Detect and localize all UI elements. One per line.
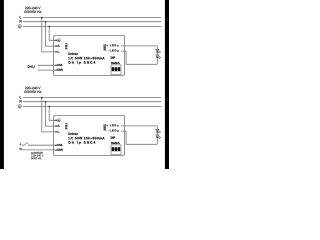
label DA lp SNC4 D1 <box>69 61 96 64</box>
wire LED chain vertical D2 <box>156 126 158 144</box>
terminal square dal D1 <box>55 65 56 66</box>
driver box D2 <box>54 116 125 156</box>
wire L line D2 <box>23 97 161 99</box>
junction dot N D2 <box>45 101 47 103</box>
terminal square -LED D1 <box>117 50 118 51</box>
label SEC D2 <box>104 124 106 130</box>
wire N line D2 <box>23 101 161 103</box>
terminal square pe D1 <box>55 40 56 41</box>
wire DALI DA/L <box>38 64 57 66</box>
node N label D2 <box>20 100 22 102</box>
label DALI <box>28 65 35 67</box>
label LC 50W 150-500mA D2 <box>69 137 105 139</box>
terminal +LED label D1 <box>107 44 117 46</box>
terminal DA/N label D2 <box>57 149 62 151</box>
terminal L label D2 <box>58 131 59 133</box>
label Switch D2 <box>111 142 119 144</box>
terminal square dan D1 <box>55 69 56 70</box>
terminal DA/L label D1 <box>57 64 62 66</box>
wire DALI DA/N <box>38 69 57 71</box>
label switch 50/60 Hz <box>31 157 41 159</box>
wire L drop D1 <box>42 18 56 52</box>
letterbox bar right <box>165 0 169 169</box>
junction dot PE D2 <box>48 106 50 108</box>
wire PE line D1 <box>23 25 161 27</box>
terminal L label D1 <box>58 51 59 53</box>
wire +LED to chain D2 <box>121 125 157 127</box>
label PRI D1 <box>65 44 67 50</box>
label Switch D1 <box>111 62 119 64</box>
switch node N label <box>20 148 22 150</box>
terminal square dan D2 <box>55 149 56 150</box>
wire -LED return D1 <box>121 51 157 64</box>
LED D2 D1 <box>156 55 161 59</box>
DIP switch graphic D1 <box>111 65 121 75</box>
wire -LED return D2 <box>121 131 157 144</box>
label DIP D2 <box>111 137 115 139</box>
label 0/50/60 Hz mains D1 <box>24 10 41 12</box>
terminal square dal D2 <box>55 145 56 146</box>
junction dot L D1 <box>41 17 43 19</box>
label Driver D1 <box>69 53 78 55</box>
label PRI D2 <box>65 124 67 130</box>
ground PE symbol mains D2 <box>18 104 22 108</box>
wire L line D1 <box>23 17 161 19</box>
wire PE drop D1 <box>49 26 56 40</box>
label switchDIM <box>31 152 43 154</box>
terminal DA/L label D2 <box>57 144 62 146</box>
wire N line D1 <box>23 21 161 23</box>
terminal square +LED D2 <box>117 125 118 126</box>
label LC 50W 150-500mA D1 <box>69 57 105 59</box>
wire +LED to chain D1 <box>121 45 157 47</box>
terminal square +LED D1 <box>117 45 118 46</box>
switch node L label <box>20 143 21 145</box>
ground PE symbol mains D1 <box>18 24 22 28</box>
label Driver D2 <box>69 133 78 135</box>
terminal square -LED D2 <box>117 130 118 131</box>
label 0/50/60 Hz mains D2 <box>24 90 41 92</box>
driver box D1 <box>54 36 125 76</box>
node L label D1 <box>20 16 22 18</box>
terminal square n D2 <box>55 125 56 126</box>
PE symbol in box D2 <box>57 119 60 122</box>
node L label D2 <box>20 96 22 98</box>
terminal N label D1 <box>58 45 60 47</box>
terminal square pe D2 <box>55 120 56 121</box>
terminal DA/N label D1 <box>57 69 62 71</box>
label 220-240 V mains D2 <box>25 87 40 89</box>
wire PE line D2 <box>23 105 161 107</box>
wire N to DA/N <box>22 149 56 151</box>
label DA lp SNC4 D2 <box>69 141 96 144</box>
label DIP D1 <box>111 57 115 59</box>
terminal -LED label D2 <box>107 130 117 132</box>
DIP switch graphic D2 <box>111 145 121 155</box>
terminal square l D2 <box>55 131 56 132</box>
junction dot N D1 <box>45 21 47 23</box>
LED D2 D2 <box>156 135 161 139</box>
wire N drop D2 <box>45 102 56 126</box>
wire LED chain vertical D1 <box>156 46 158 64</box>
wire N drop D1 <box>45 22 56 46</box>
PE symbol in box D1 <box>57 39 60 42</box>
node N label D1 <box>20 20 22 22</box>
terminal square n D1 <box>55 45 56 46</box>
wire L drop D2 <box>42 98 56 132</box>
LED D1 D1 <box>156 49 161 53</box>
terminal +LED label D2 <box>107 124 117 126</box>
push switch lever <box>24 143 29 146</box>
wire PE drop D2 <box>49 106 56 120</box>
junction dot PE D1 <box>48 26 50 28</box>
terminal N label D2 <box>58 125 60 127</box>
terminal square l D1 <box>55 51 56 52</box>
letterbox bar left <box>0 0 4 169</box>
wire switch to DA/L <box>22 144 56 146</box>
label SEC D1 <box>104 44 106 50</box>
junction dot L D2 <box>41 97 43 99</box>
label 220-240 V mains D1 <box>25 7 40 9</box>
label switch 220-240 V <box>31 155 43 157</box>
LED D1 D2 <box>156 129 161 133</box>
terminal -LED label D1 <box>107 50 117 52</box>
